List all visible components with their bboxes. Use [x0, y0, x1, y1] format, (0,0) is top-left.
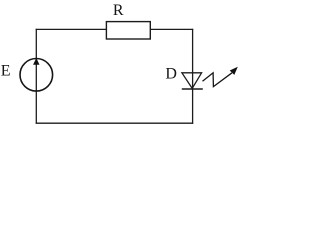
diode D	[182, 73, 203, 89]
source E (current source circle with arrow)	[20, 58, 53, 91]
wire left	[35, 29, 37, 124]
wire top	[36, 28, 194, 30]
svg-text:E: E	[1, 62, 11, 79]
resistor R	[106, 22, 150, 39]
light emission arrow	[203, 67, 238, 87]
svg-text:R: R	[113, 2, 124, 19]
wire right	[192, 29, 194, 124]
svg-text:D: D	[165, 66, 177, 83]
wire bottom	[36, 122, 194, 124]
